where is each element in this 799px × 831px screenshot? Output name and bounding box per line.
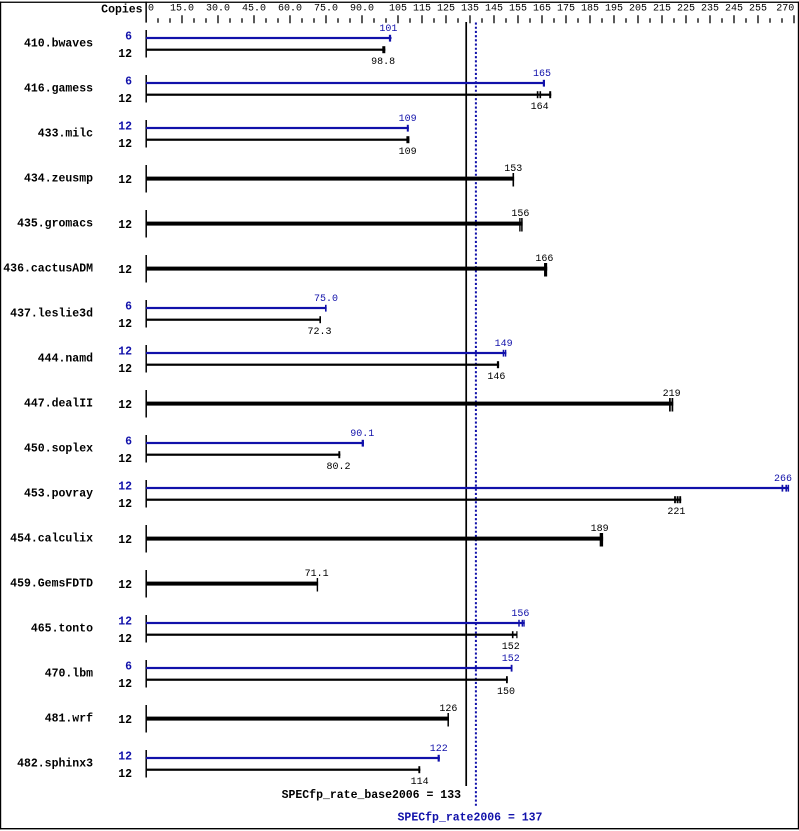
benchmark row 482.sphinx3 [17, 744, 448, 788]
svg-text:152: 152 [502, 654, 520, 665]
svg-text:6: 6 [125, 301, 132, 314]
svg-text:75.0: 75.0 [314, 294, 338, 305]
benchmark row 481.wrf [45, 704, 458, 732]
svg-text:60.0: 60.0 [278, 4, 302, 15]
peak run marks [782, 485, 784, 492]
row baseline tick at axis origin [145, 255, 147, 283]
svg-text:114: 114 [411, 777, 429, 788]
peak run marks [407, 125, 409, 132]
base bar (black) value 114 [146, 769, 420, 771]
svg-text:150: 150 [497, 687, 515, 698]
svg-text:135: 135 [461, 4, 479, 15]
svg-text:146: 146 [487, 372, 505, 383]
svg-text:122: 122 [430, 744, 448, 755]
svg-text:90.1: 90.1 [350, 429, 374, 440]
svg-text:433.milc: 433.milc [38, 128, 93, 141]
base bar (black) value 150 [146, 679, 508, 681]
row baseline tick at axis origin [145, 615, 147, 643]
benchmark row 434.zeusmp [24, 164, 522, 192]
base bar (thick black) value 153 [146, 177, 514, 181]
svg-text:30.0: 30.0 [206, 4, 230, 15]
peak run marks [389, 35, 391, 42]
svg-text:410.bwaves: 410.bwaves [24, 38, 93, 51]
peak bar (blue) value 101 [146, 37, 392, 39]
benchmark row 454.calculix [10, 524, 608, 552]
row baseline tick at axis origin [145, 570, 147, 598]
svg-text:12: 12 [118, 481, 132, 494]
peak run marks [518, 620, 520, 627]
svg-text:205: 205 [629, 4, 647, 15]
svg-text:6: 6 [125, 76, 132, 89]
benchmark row 436.cactusADM [3, 254, 553, 282]
base run marks [537, 91, 539, 98]
svg-text:0: 0 [148, 4, 154, 15]
base bar (black) value 152 [146, 634, 518, 636]
svg-text:12: 12 [118, 633, 132, 646]
svg-text:447.dealII: 447.dealII [24, 398, 93, 411]
svg-text:470.lbm: 470.lbm [45, 668, 93, 681]
base run marks [669, 398, 671, 412]
base run marks [447, 713, 449, 727]
benchmark row 433.milc [38, 114, 417, 158]
svg-text:12: 12 [118, 346, 132, 359]
svg-text:12: 12 [118, 453, 132, 466]
peak bar (blue) value 165 [146, 82, 545, 84]
svg-text:450.soplex: 450.soplex [24, 443, 93, 456]
svg-text:215: 215 [653, 4, 671, 15]
svg-text:98.8: 98.8 [371, 57, 395, 68]
row baseline tick at axis origin [145, 525, 147, 553]
peak bar (blue) value 152 [146, 667, 513, 669]
svg-text:482.sphinx3: 482.sphinx3 [17, 758, 93, 771]
peak run marks [503, 350, 504, 357]
base bar (black) value 221 [146, 499, 681, 501]
base run marks [512, 631, 514, 638]
base run marks [319, 316, 321, 323]
svg-text:6: 6 [125, 31, 132, 44]
benchmark row 465.tonto [31, 609, 530, 653]
base run marks [674, 496, 676, 503]
svg-text:12: 12 [118, 616, 132, 629]
axis scale labels 0..270 [148, 4, 794, 15]
svg-text:225: 225 [677, 4, 695, 15]
svg-text:12: 12 [118, 751, 132, 764]
base run marks [506, 676, 508, 683]
svg-text:90.0: 90.0 [350, 4, 374, 15]
svg-text:152: 152 [502, 642, 520, 653]
svg-text:12: 12 [118, 121, 132, 134]
peak bar (blue) value 109 [146, 127, 409, 129]
peak bar (blue) value 149 [146, 352, 506, 354]
svg-text:164: 164 [531, 102, 549, 113]
row baseline tick at axis origin [145, 300, 147, 328]
row baseline tick at axis origin [145, 390, 147, 418]
base run marks [317, 578, 318, 592]
svg-text:165: 165 [533, 4, 551, 15]
peak bar (blue) value 75.0 [146, 307, 327, 309]
svg-text:Copies: Copies [101, 3, 143, 16]
svg-text:SPECfp_rate_base2006 = 133: SPECfp_rate_base2006 = 133 [282, 789, 462, 802]
svg-text:SPECfp_rate2006 = 137: SPECfp_rate2006 = 137 [398, 812, 543, 825]
benchmark row 459.GemsFDTD [10, 569, 328, 597]
base run marks [600, 533, 603, 547]
peak bar (blue) value 122 [146, 757, 440, 759]
benchmark row 437.leslie3d [10, 294, 338, 338]
base bar (black) value 146 [146, 364, 499, 366]
svg-text:189: 189 [591, 524, 609, 535]
svg-text:266: 266 [774, 474, 792, 485]
svg-text:221: 221 [667, 507, 685, 518]
svg-text:105: 105 [389, 4, 407, 15]
svg-text:75.0: 75.0 [314, 4, 338, 15]
svg-text:109: 109 [399, 114, 417, 125]
peak bar (blue) value 266 [146, 487, 789, 489]
row baseline tick at axis origin [145, 435, 147, 463]
svg-text:270: 270 [776, 4, 794, 15]
svg-text:12: 12 [118, 219, 132, 232]
svg-text:71.1: 71.1 [305, 569, 329, 580]
svg-text:12: 12 [118, 264, 132, 277]
benchmark row 410.bwaves [24, 24, 397, 68]
svg-text:12: 12 [118, 579, 132, 592]
svg-text:453.povray: 453.povray [24, 488, 93, 501]
benchmark row 435.gromacs [17, 209, 529, 237]
svg-text:165: 165 [533, 69, 551, 80]
svg-text:195: 195 [605, 4, 623, 15]
benchmark row 416.gamess [24, 69, 551, 113]
svg-text:156: 156 [511, 609, 529, 620]
row baseline tick at axis origin [145, 660, 147, 688]
base run marks [497, 361, 499, 368]
peak run marks [362, 440, 364, 447]
svg-text:101: 101 [379, 24, 397, 35]
svg-text:454.calculix: 454.calculix [10, 533, 93, 546]
row baseline tick at axis origin [145, 120, 147, 148]
svg-text:465.tonto: 465.tonto [31, 623, 93, 636]
svg-text:175: 175 [557, 4, 575, 15]
peak run marks [511, 665, 513, 672]
svg-text:437.leslie3d: 437.leslie3d [10, 308, 93, 321]
svg-text:126: 126 [439, 704, 457, 715]
svg-text:12: 12 [118, 318, 132, 331]
axis tick marks every 5 units [158, 15, 794, 23]
svg-text:109: 109 [399, 147, 417, 158]
svg-text:125: 125 [437, 4, 455, 15]
base bar (thick black) value 166 [146, 267, 547, 271]
base run marks [418, 766, 420, 773]
svg-text:156: 156 [511, 209, 529, 220]
axis origin vertical line segment [145, 2, 147, 23]
peak bar (blue) value 156 [146, 622, 525, 624]
base bar (thick black) value 126 [146, 717, 449, 721]
row baseline tick at axis origin [145, 30, 147, 58]
base bar (thick black) value 71.1 [146, 582, 318, 586]
base bar (black) value 109 [146, 139, 409, 141]
benchmark row 444.namd [38, 339, 513, 383]
svg-text:185: 185 [581, 4, 599, 15]
base run marks [382, 46, 385, 53]
svg-text:12: 12 [118, 174, 132, 187]
svg-text:12: 12 [118, 48, 132, 61]
base bar (black) value 72.3 [146, 319, 321, 321]
svg-text:12: 12 [118, 93, 132, 106]
svg-text:219: 219 [663, 389, 681, 400]
benchmark row 450.soplex [24, 429, 374, 473]
base bar (black) value 164 [146, 94, 551, 96]
SPECfp_rate_base2006 mean reference line (solid black, 133) [465, 22, 467, 786]
SPECfp_rate2006 mean reference line (dotted blue, 137) [475, 23, 477, 808]
svg-text:12: 12 [118, 138, 132, 151]
svg-text:434.zeusmp: 434.zeusmp [24, 173, 93, 186]
base bar (thick black) value 219 [146, 402, 673, 406]
svg-text:149: 149 [495, 339, 513, 350]
svg-text:245: 245 [725, 4, 743, 15]
svg-text:12: 12 [118, 714, 132, 727]
base run marks [544, 263, 547, 277]
svg-text:12: 12 [118, 534, 132, 547]
benchmark row 447.dealII [24, 389, 681, 417]
svg-text:12: 12 [118, 363, 132, 376]
svg-text:145: 145 [485, 4, 503, 15]
svg-text:12: 12 [118, 678, 132, 691]
row baseline tick at axis origin [145, 210, 147, 238]
svg-text:45.0: 45.0 [242, 4, 266, 15]
svg-text:166: 166 [535, 254, 553, 265]
row baseline tick at axis origin [145, 750, 147, 778]
benchmark row 453.povray [24, 474, 792, 518]
svg-text:153: 153 [504, 164, 522, 175]
svg-text:80.2: 80.2 [326, 462, 350, 473]
svg-text:255: 255 [749, 4, 767, 15]
benchmark row 470.lbm [45, 654, 520, 698]
svg-text:416.gamess: 416.gamess [24, 83, 93, 96]
row baseline tick at axis origin [145, 705, 147, 733]
svg-text:436.cactusADM: 436.cactusADM [3, 263, 93, 276]
row baseline tick at axis origin [145, 345, 147, 373]
base run marks [519, 218, 520, 232]
base run marks [406, 136, 409, 143]
svg-text:6: 6 [125, 436, 132, 449]
svg-text:12: 12 [118, 768, 132, 781]
svg-text:115: 115 [413, 4, 431, 15]
base run marks [338, 451, 340, 458]
row baseline tick at axis origin [145, 480, 147, 508]
svg-text:235: 235 [701, 4, 719, 15]
svg-text:12: 12 [118, 399, 132, 412]
base bar (black) value 98.8 [146, 49, 385, 51]
svg-text:72.3: 72.3 [307, 327, 331, 338]
svg-text:12: 12 [118, 498, 132, 511]
svg-text:435.gromacs: 435.gromacs [17, 218, 93, 231]
svg-text:481.wrf: 481.wrf [45, 713, 93, 726]
peak bar (blue) value 90.1 [146, 442, 364, 444]
row baseline tick at axis origin [145, 165, 147, 193]
base bar (black) value 80.2 [146, 454, 340, 456]
base run marks [513, 173, 515, 187]
base bar (thick black) value 189 [146, 537, 603, 541]
row baseline tick at axis origin [145, 75, 147, 103]
svg-text:459.GemsFDTD: 459.GemsFDTD [10, 578, 93, 591]
peak run marks [325, 305, 327, 312]
svg-text:6: 6 [125, 661, 132, 674]
base bar (thick black) value 156 [146, 222, 523, 226]
svg-text:155: 155 [509, 4, 527, 15]
svg-text:15.0: 15.0 [170, 4, 194, 15]
peak run marks [438, 755, 440, 762]
peak run marks [543, 80, 545, 87]
svg-text:444.namd: 444.namd [38, 353, 93, 366]
